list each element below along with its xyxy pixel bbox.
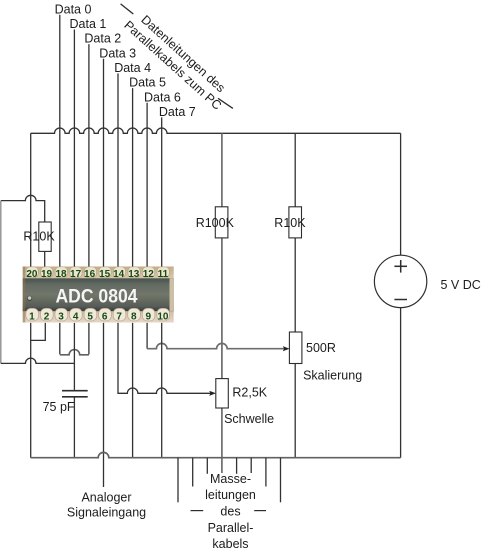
svg-text:10: 10 xyxy=(157,311,169,322)
wire pin6 analog input line through rail hop xyxy=(103,323,105,487)
svg-text:Parallel-: Parallel- xyxy=(208,521,254,535)
wire ground stub 1 xyxy=(177,458,179,503)
wire top bus with hops over data lines xyxy=(31,128,401,133)
wire pin20 vertical from bus to chip xyxy=(30,133,32,267)
svg-text:R100K: R100K xyxy=(196,216,235,230)
svg-text:13: 13 xyxy=(128,269,140,280)
wire R100K branch from bus xyxy=(221,133,223,207)
svg-text:7: 7 xyxy=(116,311,122,322)
wire R10K bottom to pin19 xyxy=(44,251,46,267)
dash before rotated note xyxy=(121,4,134,14)
wire left rail to capacitor node, hop over pin1 line xyxy=(1,358,75,363)
wire pin9 to 500R wiper with hops xyxy=(146,323,148,349)
label Analoger Signaleingang xyxy=(67,491,146,520)
voltage source 5V DC circle xyxy=(374,255,426,307)
wire pin1 vertical to bottom rail xyxy=(30,323,32,458)
svg-text:8: 8 xyxy=(131,311,137,322)
svg-text:14: 14 xyxy=(113,269,125,280)
svg-text:12: 12 xyxy=(143,269,155,280)
wire data line 1 xyxy=(73,30,75,268)
wire data line 4 xyxy=(117,73,119,267)
svg-text:leitungen: leitungen xyxy=(205,488,256,502)
svg-text:R10K: R10K xyxy=(23,229,55,243)
svg-text:500R: 500R xyxy=(306,341,336,355)
wire pin4 to capacitor xyxy=(73,323,75,390)
svg-text:16: 16 xyxy=(84,269,96,280)
svg-text:ADC 0804: ADC 0804 xyxy=(56,285,138,307)
svg-text:Data 3: Data 3 xyxy=(99,46,136,60)
wire pin8 vertical to bottom rail xyxy=(132,323,134,458)
wire pin2 L to pin1 line xyxy=(31,323,46,341)
svg-text:15: 15 xyxy=(99,269,111,280)
svg-text:Data 2: Data 2 xyxy=(84,32,121,46)
resistor R100K xyxy=(215,207,228,238)
svg-text:Masse-: Masse- xyxy=(210,472,251,486)
wire pin10 vertical to bottom rail xyxy=(161,323,163,458)
wire data line 7 xyxy=(161,117,163,267)
arrowhead into R2,5K xyxy=(209,391,216,396)
wire bottom ground rail with hop over pin6 line xyxy=(31,452,401,457)
wire ground stub 7 xyxy=(265,458,267,487)
dash left of des xyxy=(191,510,204,512)
chip pin numbers bottom row xyxy=(29,311,169,322)
svg-text:kabels: kabels xyxy=(212,537,248,548)
wire pin5 vertical xyxy=(88,323,90,354)
minus sign xyxy=(394,299,407,301)
chip pin numbers top row xyxy=(26,269,168,280)
wire left rail (gray) xyxy=(0,201,2,364)
rotated note Datenleitungen des Parallelkabels zum PC xyxy=(121,7,234,113)
wire pin3-pin5 U with hop over pin4 line xyxy=(59,323,61,354)
wire pin3-pin5 link hop over pin4 xyxy=(60,350,89,355)
capacitor C 75pF plates xyxy=(62,391,88,397)
svg-text:18: 18 xyxy=(55,269,67,280)
svg-text:6: 6 xyxy=(102,311,108,322)
wire ground stub 5 xyxy=(236,458,238,474)
resistor R10K (left, clock) xyxy=(39,222,51,251)
dash right of des xyxy=(254,510,266,512)
wire R10K(right) branch from bus xyxy=(294,133,296,207)
svg-text:des: des xyxy=(220,505,240,519)
chip photo left dark edge xyxy=(23,267,26,323)
svg-text:Data 4: Data 4 xyxy=(114,61,151,75)
arrowhead into 500R xyxy=(283,346,290,351)
svg-text:Data 5: Data 5 xyxy=(129,76,166,90)
wire data line 0 xyxy=(59,15,61,267)
dash after rotated note xyxy=(218,98,233,108)
svg-text:Data 6: Data 6 xyxy=(144,90,181,104)
plus sign xyxy=(394,260,407,273)
chip ADC 0804 photo xyxy=(23,267,174,323)
svg-text:11: 11 xyxy=(158,269,169,280)
potentiometer R2,5K xyxy=(216,379,229,408)
chip pin bumps top xyxy=(26,267,169,278)
svg-text:R10K: R10K xyxy=(274,216,306,230)
svg-text:3: 3 xyxy=(58,311,64,322)
svg-text:75 pF: 75 pF xyxy=(43,400,75,414)
svg-text:19: 19 xyxy=(41,269,53,280)
wire data line 2 xyxy=(88,44,90,267)
svg-text:R2,5K: R2,5K xyxy=(232,386,267,400)
svg-text:17: 17 xyxy=(70,269,82,280)
wire 500R to bottom rail xyxy=(294,364,296,458)
svg-text:5 V DC: 5 V DC xyxy=(441,278,481,292)
wire ground stub 3 xyxy=(206,458,208,474)
wire source bottom to rail xyxy=(400,308,402,458)
wire R10K to 500R xyxy=(294,238,296,332)
wire R2,5K to bottom rail and stub below xyxy=(221,408,223,473)
chip pin bumps bottom xyxy=(26,308,170,321)
svg-text:4: 4 xyxy=(73,311,79,322)
svg-text:Data 0: Data 0 xyxy=(55,2,92,16)
wire ground stub 8 xyxy=(280,458,282,503)
svg-text:9: 9 xyxy=(146,311,152,322)
wire source branch from bus xyxy=(400,133,402,255)
wire ground stub 6 xyxy=(250,458,252,473)
wire data line 5 xyxy=(132,88,134,267)
svg-text:Data 1: Data 1 xyxy=(70,17,107,31)
svg-text:Skalierung: Skalierung xyxy=(303,368,362,382)
svg-text:2: 2 xyxy=(44,311,50,322)
svg-text:1: 1 xyxy=(29,311,35,322)
wire R10K top wire from left rail, hop over pin20 line xyxy=(1,195,45,222)
label Masseleitungen des Parallelkabels xyxy=(205,472,256,548)
svg-text:Signaleingang: Signaleingang xyxy=(67,505,146,519)
wire data line 6 xyxy=(146,103,148,268)
svg-text:Analoger: Analoger xyxy=(81,491,131,505)
svg-text:Schwelle: Schwelle xyxy=(224,412,274,426)
svg-text:5: 5 xyxy=(87,311,93,322)
resistor R10K (right) xyxy=(289,207,302,238)
wire R100K to R2,5K (pin9 wire hops over it) xyxy=(221,238,223,379)
svg-text:20: 20 xyxy=(26,269,38,280)
wire data line 3 xyxy=(103,59,105,267)
svg-text:Data 7: Data 7 xyxy=(159,105,196,119)
potentiometer 500R xyxy=(289,332,302,364)
chip pin-1 indicator dot xyxy=(27,296,32,301)
wire pin7 to R2,5K wiper with hops xyxy=(118,323,213,393)
wire ground stub 2 xyxy=(192,458,194,487)
wire capacitor to bottom rail xyxy=(73,398,75,458)
